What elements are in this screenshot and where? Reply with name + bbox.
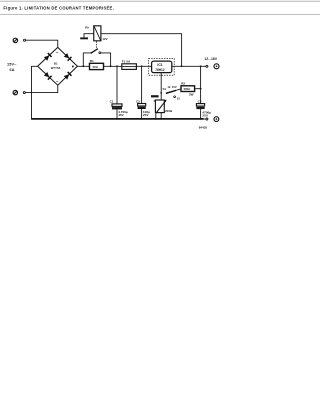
diode D-bottomleft xyxy=(44,72,52,80)
node: C2 top xyxy=(141,65,143,67)
diode D-topleft xyxy=(44,53,52,61)
output terminal bottom (banana socket with dot) xyxy=(214,117,219,122)
input plug bottom (small circle) xyxy=(23,92,25,94)
chassis ground xyxy=(80,37,88,39)
svg-text:C2: C2 xyxy=(136,100,140,104)
svg-text:12V: 12V xyxy=(102,37,107,41)
svg-text:~: ~ xyxy=(56,79,59,84)
svg-text:BTY54: BTY54 xyxy=(51,66,61,70)
svg-text:47Ω: 47Ω xyxy=(92,65,98,69)
svg-text:78H12: 78H12 xyxy=(155,68,165,72)
svg-text:B1: B1 xyxy=(54,61,58,65)
top border rule xyxy=(0,0,320,2)
wire: relay coil to output node xyxy=(101,34,182,67)
capacitor C1 xyxy=(116,66,118,119)
capacitor C2 xyxy=(141,66,143,119)
wire: IC1 ground pin down xyxy=(160,73,162,100)
svg-text:12...16V: 12...16V xyxy=(204,57,217,61)
caption underline rule xyxy=(0,14,320,16)
wire: bottom AC input to bridge bottom vertex xyxy=(25,85,57,92)
svg-text:12: 12 xyxy=(167,85,170,89)
mechanical link relay to contact (dashed) xyxy=(96,41,98,48)
relay contact lever xyxy=(91,49,98,53)
svg-text:Re: Re xyxy=(85,26,89,30)
switch S1 idle contact bar xyxy=(151,95,159,97)
main positive rail xyxy=(77,65,151,67)
svg-text:C1: C1 xyxy=(110,100,114,104)
node: C2 bottom xyxy=(141,118,143,120)
svg-text:Figure 1. LIMITATION DE COURAN: Figure 1. LIMITATION DE COURANT TEMPORIS… xyxy=(3,6,114,11)
svg-text:2W: 2W xyxy=(189,93,194,97)
input plug top (small circle) xyxy=(24,39,26,41)
svg-text:220Ω: 220Ω xyxy=(165,109,173,113)
regulator IC1 78H12 dashed outline xyxy=(149,58,175,75)
svg-text:R2: R2 xyxy=(181,81,185,85)
svg-text:15V: 15V xyxy=(172,85,177,89)
switch S1 open contact circle xyxy=(174,96,176,98)
input terminal bottom (banana socket) xyxy=(13,90,17,94)
diode D-topright xyxy=(64,53,72,61)
diode D-bottomright xyxy=(64,71,72,79)
wire: top AC input to bridge top vertex xyxy=(26,40,58,47)
wire: R2 to output column xyxy=(195,88,201,90)
node: C3 top xyxy=(200,65,202,67)
svg-text:S1: S1 xyxy=(177,98,181,101)
svg-text:15V~: 15V~ xyxy=(7,62,17,66)
svg-text:25V: 25V xyxy=(143,113,149,117)
relay contact branch (parallel with R1) xyxy=(83,53,91,66)
svg-text:~: ~ xyxy=(56,50,59,55)
relay coil Re xyxy=(94,26,101,41)
svg-text:25V: 25V xyxy=(202,114,208,118)
svg-text:S1: S1 xyxy=(163,87,167,91)
switch S1 xyxy=(160,92,162,94)
input terminal top (banana socket) xyxy=(13,38,17,42)
node: C1 bottom xyxy=(116,118,118,120)
relay contact pivot xyxy=(91,52,93,54)
output plug top (small circle) xyxy=(206,65,208,67)
regulator IC1 78H12 xyxy=(152,61,172,73)
output plug bottom (small circle) xyxy=(206,118,208,120)
svg-text:40V: 40V xyxy=(118,113,124,117)
capacitor C3 xyxy=(200,66,202,119)
node: R2/C3 xyxy=(200,88,202,90)
relay contact fixed point xyxy=(99,52,101,54)
svg-text:F1 5A: F1 5A xyxy=(122,60,131,64)
wire: contact to rail right side xyxy=(101,53,111,66)
node: C3 bottom xyxy=(200,118,202,120)
svg-text:6A: 6A xyxy=(10,68,15,72)
svg-text:R1: R1 xyxy=(90,59,94,63)
svg-text:C3: C3 xyxy=(198,100,202,104)
wire: bridge minus (left vertex) to ground rail xyxy=(32,66,38,118)
svg-text:IC1: IC1 xyxy=(157,63,162,67)
bridge rectifier B1 diamond xyxy=(38,47,78,85)
node: branch left xyxy=(82,65,84,67)
node: relay feed xyxy=(181,65,183,67)
node: C1 top xyxy=(116,65,118,67)
output terminal top (banana socket with dot) xyxy=(214,64,219,69)
svg-text:560Ω: 560Ω xyxy=(184,87,191,91)
node: branch right xyxy=(110,65,112,67)
ground rail (bottom, thick) xyxy=(31,118,204,120)
svg-text:84435: 84435 xyxy=(199,125,208,129)
wire: relay coil to chassis xyxy=(84,34,94,38)
resistor R1 xyxy=(90,63,104,69)
